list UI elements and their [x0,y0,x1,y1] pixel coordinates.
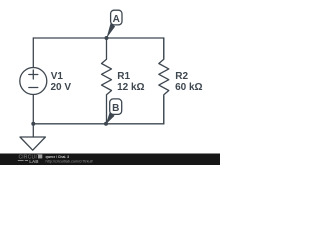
svg-text:qwerz / Chal. 3: qwerz / Chal. 3 [46,155,70,159]
junction node B dot [104,122,108,126]
wire left vertical (V1 to bottom) [32,95,34,124]
node flag B tail [106,112,115,124]
wire right vertical (top to R2) [163,38,165,58]
resistor R2 body [159,38,169,124]
node flag B box [110,99,122,115]
svg-text:LAB: LAB [29,159,39,164]
svg-text:12 kΩ: 12 kΩ [117,82,144,93]
node flag A tail [106,23,115,39]
svg-text:B: B [112,103,119,114]
watermark bar [0,154,220,166]
junction node A dot [105,36,109,40]
V1 plus sign [29,70,38,79]
svg-text:httр://circuitlab.com/c/7trkui: httр://circuitlab.com/c/7trkuif [46,160,94,164]
wire left vertical (top segment to V1) [32,38,34,68]
ground stem [32,124,34,137]
junction ground node dot [31,122,35,126]
wire top horizontal [33,37,164,39]
resistor R1 body [102,38,112,124]
ground triangle [20,137,45,150]
svg-text:R1: R1 [117,71,130,82]
svg-text:20 V: 20 V [51,82,72,93]
watermark logo CIRCUIT LAB [18,154,43,164]
svg-text:V1: V1 [51,71,64,82]
wire right vertical (R2 to bottom) [163,96,165,124]
svg-text:60 kΩ: 60 kΩ [175,82,202,93]
wire bottom horizontal [33,123,164,125]
svg-text:R2: R2 [175,71,188,82]
V1 minus sign [29,87,38,89]
voltage source V1 circle [20,68,47,95]
node flag A box [111,10,122,25]
svg-text:A: A [113,14,120,25]
